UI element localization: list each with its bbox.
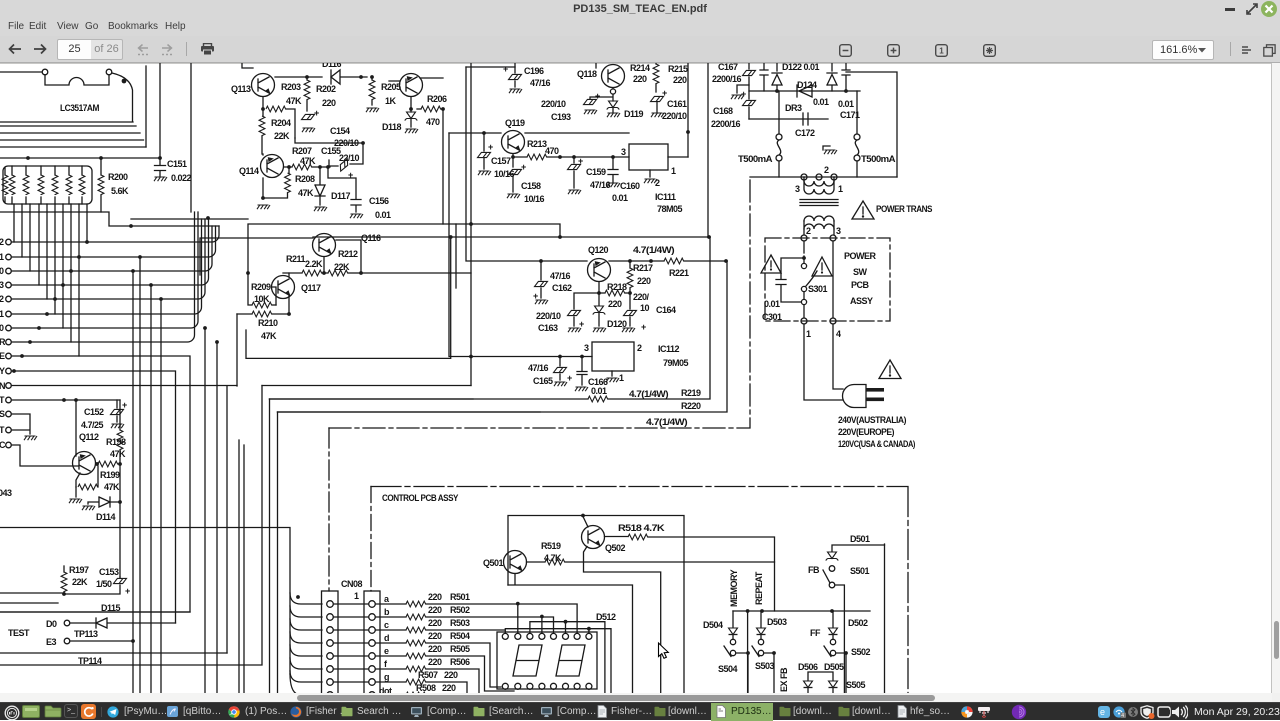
svg-text:CONTROL PCB ASSY: CONTROL PCB ASSY [382,493,458,503]
svg-text:3: 3 [621,147,626,157]
fuse F1 T500mA [776,91,782,177]
svg-text:0.01: 0.01 [612,193,628,203]
resistor R221 [664,258,684,264]
svg-text:+: + [662,88,667,98]
wire row c to pins [426,629,611,700]
svg-text:R221: R221 [669,268,689,278]
svg-text:POWER TRANS: POWER TRANS [876,204,932,214]
svg-text:D124: D124 [797,80,817,90]
wire row g [426,682,467,700]
svg-text:1: 1 [939,46,944,55]
tray icons [961,706,973,718]
svg-text:C162: C162 [552,283,572,293]
transistor Q112 [73,401,96,475]
svg-text:C163: C163 [538,323,558,333]
svg-text:C151: C151 [167,159,187,169]
wire Q119 emitter node [513,154,527,157]
svg-text:C157: C157 [491,156,511,166]
svg-text:R204: R204 [271,118,291,128]
capacitor C158 10/16 [512,157,514,192]
svg-text:f: f [384,659,388,669]
taskbar [0,702,1280,720]
svg-text:S505: S505 [846,680,866,690]
svg-text:0.022: 0.022 [171,173,192,183]
svg-text:R214: R214 [630,63,650,73]
resistor R208 47K [288,167,290,173]
bridge cap C170 [842,63,850,91]
svg-text:47/16: 47/16 [590,180,611,190]
wire Q119 collector line [449,132,629,134]
svg-text:b: b [384,607,390,617]
svg-text:S502: S502 [851,647,871,657]
wire row E path [0,356,190,612]
transistor Q118 top [590,63,625,101]
svg-text:DR3: DR3 [785,103,802,113]
svg-text:3: 3 [795,184,800,194]
svg-text:R502: R502 [450,605,470,615]
svg-text:0.01: 0.01 [764,299,780,309]
svg-text:+: + [488,142,493,152]
wire Q120 base line [466,67,651,261]
connector terminals 2 3 1 4 [801,235,836,324]
svg-text:T: T [0,425,5,435]
svg-text:C160: C160 [620,181,640,191]
svg-text:2: 2 [824,165,829,175]
svg-text:D117: D117 [331,191,351,201]
svg-text:TEST: TEST [8,628,30,638]
svg-text:4.7(1/4W): 4.7(1/4W) [629,389,669,399]
diode D114 [88,497,120,507]
svg-text:220: 220 [322,98,336,108]
transistor Q119 [502,131,525,154]
toolbar [0,36,1280,63]
resistor R215 220 [655,63,657,92]
ground center tap [823,146,830,150]
switch S301 [801,241,817,318]
resistor R501 [375,603,406,605]
svg-text:1K: 1K [385,96,397,106]
svg-text:R199: R199 [100,470,120,480]
svg-text:79M05: 79M05 [663,358,689,368]
svg-text:C159: C159 [586,167,606,177]
resistor array elements [5,166,82,204]
svg-text:S: S [0,409,5,419]
connector CN08 left box [322,591,339,699]
display D512 box [497,632,597,689]
resistor R199 47K [95,462,99,466]
wire nested corner 2 [262,385,471,387]
chrome [228,706,240,718]
svg-text:Q119: Q119 [505,118,525,128]
resistor R218 220 [599,292,605,294]
power transformer T1 [750,174,897,180]
diode D117 [315,167,325,205]
svg-text:D501: D501 [850,534,870,544]
resistor R213 470 [527,154,547,160]
svg-text:R217: R217 [633,263,653,273]
svg-text:IC112: IC112 [658,344,680,354]
svg-text:Q113: Q113 [231,84,251,94]
resistor R505 [375,655,406,657]
transistor Q501 [504,551,546,574]
wire R210 to lower bus [236,314,238,386]
capacitor C161 220/10 [651,96,664,101]
capacitor C166 0.01 [577,357,587,386]
svg-text:Q120: Q120 [588,245,609,255]
window titlebar [0,0,1280,19]
connector terminal row left [6,239,12,448]
svg-text:220: 220 [633,74,647,84]
svg-text:D119: D119 [624,109,644,119]
svg-text:+: + [314,108,319,118]
resistor R506 [375,668,406,670]
svg-text:47/16: 47/16 [550,271,571,281]
svg-text:47/16: 47/16 [530,78,551,88]
display bottom pins [502,683,592,689]
zener diode D118 [410,109,412,112]
svg-text:R506: R506 [450,657,470,667]
capacitor C168 2200/16 [743,100,756,105]
svg-text:470: 470 [426,117,440,127]
svg-text:CN08: CN08 [341,579,363,589]
diode D119 [607,101,620,110]
svg-text:220/10: 220/10 [541,99,566,109]
wires from R-pack down [14,204,87,356]
wire long verticals to bottom [133,257,278,700]
svg-text:R205: R205 [381,82,401,92]
menubar [0,19,1280,36]
svg-text:2.2K: 2.2K [305,259,323,269]
svg-text:d: d [384,633,389,643]
svg-text:C153: C153 [99,567,119,577]
svg-text:10K: 10K [254,294,270,304]
svg-text:220/10: 220/10 [662,111,687,121]
warning triangle sw2 [812,257,832,276]
capacitor C154 220/10 [302,114,315,119]
svg-text:S503: S503 [755,661,775,671]
svg-text:E: E [0,351,5,361]
wire row a to pins [426,604,577,633]
svg-text:c: c [384,620,389,630]
svg-text:220: 220 [428,631,442,641]
wire row b to pins [426,617,554,633]
wire DR3 row [749,113,828,125]
wire row d [426,643,501,687]
svg-text:22K: 22K [334,262,350,272]
firefox [290,706,302,718]
svg-text:+: + [521,162,526,172]
svg-text:0.01: 0.01 [375,210,391,220]
svg-text:C164: C164 [656,305,676,315]
svg-text:R505: R505 [450,644,470,654]
svg-text:4: 4 [836,329,841,339]
diode D116 [331,70,367,84]
svg-text:+: + [579,319,584,329]
svg-text:4: 4 [1121,713,1124,718]
wire rail y515 [508,516,684,701]
svg-text:Q118: Q118 [577,69,597,79]
resistor R210 47K [237,313,252,315]
AC plug [843,385,867,408]
wire long bus y237 [313,236,710,238]
capacitor C153 1/50 [119,577,121,578]
svg-text:SW: SW [853,267,868,277]
bridge diode D123 [827,63,837,91]
svg-text:T500mA: T500mA [738,154,773,164]
svg-text:470: 470 [545,146,559,156]
svg-text:N: N [0,381,5,391]
wire row N (R210) [11,385,237,387]
svg-text:47K: 47K [298,188,314,198]
svg-text:22K: 22K [72,577,88,587]
resistor R217 220 [629,261,631,293]
svg-text:R203: R203 [281,82,301,92]
svg-text:+: + [595,91,600,101]
svg-text:Y: Y [0,366,5,376]
wire x443 [442,109,444,224]
svg-text:e: e [384,646,389,656]
wire CN08 curls [290,593,322,695]
svg-text:D116: D116 [322,63,342,69]
junction dots mesh [85,240,89,244]
svg-text:1: 1 [806,329,811,339]
svg-text:Q501: Q501 [483,558,504,568]
display digit 2 [556,645,585,676]
zoom-in icon [887,44,900,57]
svg-text:IC111: IC111 [655,192,676,202]
display top pins [502,633,592,639]
svg-text:2: 2 [655,178,660,188]
svg-text:78M05: 78M05 [657,204,683,214]
wire right return [846,72,897,177]
svg-text:+: + [567,373,572,383]
resistor R211 2.2K [283,272,302,274]
wire x708 vertical long [707,63,709,237]
svg-text:4.7/25: 4.7/25 [81,420,104,430]
IC112 79M05 box [592,342,634,371]
resistor R203 47K [306,77,308,111]
svg-text:1: 1 [0,252,4,262]
svg-text:+: + [578,156,583,166]
svg-text:C156: C156 [369,196,389,206]
transistor Q115 [389,74,443,110]
wire nested corner 4 [278,411,541,413]
capacitor C196 47/16 [514,63,516,87]
wire Q112 emitter [76,473,80,487]
wire x471 [470,63,472,386]
resistor R503 [375,629,406,631]
svg-text:R207: R207 [292,146,312,156]
svg-text:220: 220 [637,276,651,286]
resistor R209 10K [248,273,252,305]
svg-text:2: 2 [637,343,642,353]
wire row e [426,656,514,691]
capacitor C155 22/10 [337,159,350,171]
telegram [107,706,119,718]
svg-text:R211: R211 [286,254,306,264]
svg-text:Q114: Q114 [239,166,259,176]
svg-text:47K: 47K [110,449,126,459]
svg-text:D512: D512 [596,612,616,622]
svg-text:1: 1 [619,373,624,383]
transistor Q120 [588,259,611,282]
svg-text:R518 4.7K: R518 4.7K [618,523,665,533]
warning triangle mains [879,360,901,379]
wire row S/T/C stubs [11,414,78,466]
svg-text:220: 220 [428,644,442,654]
svg-text:C158: C158 [521,181,541,191]
resistor R206 470 [417,108,421,110]
svg-text:D118: D118 [382,122,402,132]
resistor R518 4.7K [628,534,648,540]
svg-text:2200/16: 2200/16 [712,74,742,84]
svg-text:220/: 220/ [633,292,650,302]
wire jog c [530,622,605,700]
svg-text:C168: C168 [713,106,733,116]
svg-text:S501: S501 [850,566,870,576]
transistor Q116 [200,234,361,276]
wire bridge bottom [749,90,860,92]
diode D124 [797,85,812,97]
svg-text:220: 220 [428,618,442,628]
resistor R207 47K [292,164,312,170]
resistor R502 [375,616,406,618]
capacitor C151 [155,158,166,176]
svg-text:1/50: 1/50 [96,579,112,589]
resistor R508 [375,694,406,696]
svg-text:REPEAT: REPEAT [754,571,764,605]
svg-text:4.7K: 4.7K [544,553,562,563]
active window button [711,703,773,721]
wire R219 line [270,398,589,400]
CONTROL PCB ASSY dashed boundary [371,487,908,701]
svg-text:47K: 47K [261,331,277,341]
boundary dash-dot power section [329,180,750,428]
wire terminal3 to 4 [832,241,834,318]
svg-text:R210: R210 [258,318,278,328]
svg-text:+: + [125,586,130,596]
svg-text:2: 2 [0,237,4,247]
svg-text:C172: C172 [795,128,815,138]
svg-text:R206: R206 [427,94,447,104]
svg-text:D122 0.01: D122 0.01 [782,63,820,72]
wire x688 [687,63,689,157]
wire node B1 [275,76,322,78]
display digit 1 [513,645,542,676]
svg-text:R208: R208 [295,174,315,184]
svg-text:T500mA: T500mA [861,154,896,164]
capacitor C160 0.01 [608,157,618,182]
svg-text:3: 3 [0,280,4,290]
svg-text:220/10: 220/10 [536,311,561,321]
svg-text:a: a [384,594,390,604]
svg-text:220: 220 [428,592,442,602]
capacitor C156 0.01 [328,167,361,212]
capacitor C164 220/10 [629,293,631,326]
resistor R507 [375,681,406,683]
resistor R212 22K [322,272,471,274]
svg-text:R200: R200 [108,172,128,182]
svg-text:043: 043 [0,488,12,498]
zener diode D120 [598,293,600,305]
transistor Q113 [242,63,275,109]
svg-text:47K: 47K [286,96,302,106]
capacitor C167 2200/16 [748,63,750,119]
svg-text:47K: 47K [300,156,316,166]
svg-text:ASSY: ASSY [850,296,873,306]
svg-text:R202: R202 [316,84,336,94]
svg-text:2: 2 [806,226,811,236]
svg-text:0.01: 0.01 [813,97,829,107]
svg-text:C167: C167 [718,63,738,72]
capacitor C157 10/16 [483,133,485,169]
svg-text:R213: R213 [527,139,547,149]
svg-text:220: 220 [444,670,458,680]
svg-text:R197: R197 [69,565,89,575]
svg-text:220: 220 [673,75,687,85]
svg-text:R507: R507 [418,670,438,680]
wire row curls [11,212,219,342]
svg-text:1: 1 [0,309,4,319]
svg-text:1: 1 [838,184,843,194]
svg-text:R209: R209 [251,282,271,292]
page top edge [0,63,1271,65]
svg-text:R215: R215 [668,64,688,74]
svg-text:+: + [122,400,127,410]
IC111 78M05 box [629,144,668,170]
wire to plug [804,324,843,400]
svg-text:R220: R220 [681,401,701,411]
svg-text:D503: D503 [767,617,787,627]
capacitor C162 47/16 [540,261,542,298]
wire nested corner 1 [246,237,451,358]
svg-text:R501: R501 [450,592,470,602]
IC112 pin1 ground [611,371,613,376]
svg-text:C301: C301 [762,312,782,322]
POWER SW PCB ASSY dashed box [765,238,890,321]
wire into IC112 [449,133,592,357]
svg-text:D0: D0 [46,619,57,629]
svg-text:2200/16: 2200/16 [711,119,741,129]
svg-text:220: 220 [442,683,456,693]
svg-text:R508: R508 [416,683,436,693]
wire row T [11,399,120,401]
svg-text:E3: E3 [46,637,57,647]
svg-text:Q117: Q117 [301,283,321,293]
svg-text:220: 220 [428,605,442,615]
svg-text:C155: C155 [321,146,341,156]
wire y527 bus to CN08 [0,528,290,675]
svg-text:D504: D504 [703,620,723,630]
svg-text:S504: S504 [718,664,738,674]
connector CN08 right box [364,591,380,699]
svg-text:R519: R519 [541,541,561,551]
svg-text:0: 0 [0,266,4,276]
svg-text:3: 3 [836,226,841,236]
svg-text:220V(EUROPE): 220V(EUROPE) [838,427,894,437]
svg-text:g: g [384,672,389,682]
transistor Q502 [582,517,661,701]
svg-text:TP113: TP113 [74,629,98,639]
svg-text:C193: C193 [551,112,571,122]
svg-text:3: 3 [584,343,589,353]
svg-text:T: T [0,395,5,405]
svg-text:R218: R218 [607,282,627,292]
svg-text:240V(AUSTRALIA): 240V(AUSTRALIA) [838,415,906,425]
wire bus below IC [0,126,160,158]
svg-text:Q116: Q116 [361,233,381,243]
wire y612 row [0,611,190,613]
